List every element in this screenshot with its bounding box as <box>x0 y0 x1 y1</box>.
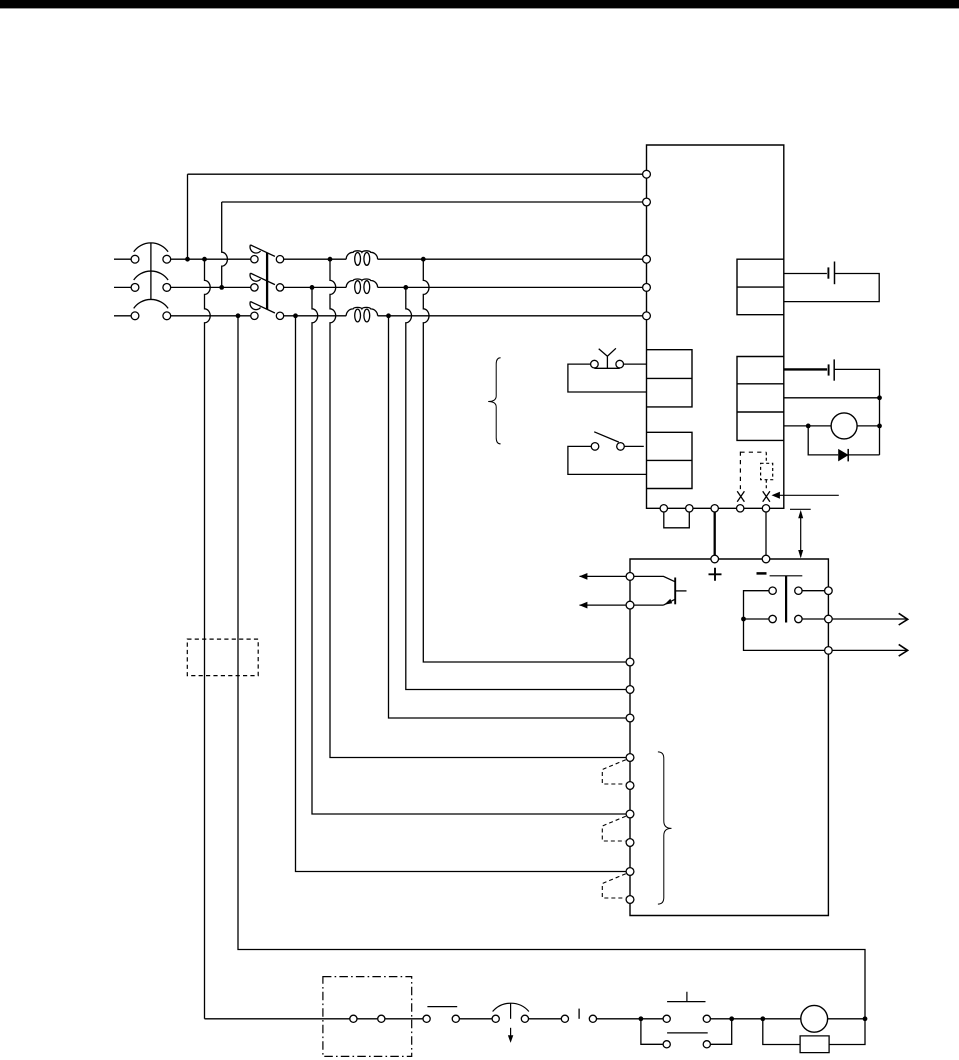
contact K4 terminal a <box>663 1041 670 1048</box>
wire L1 switch-to-breaker <box>167 258 255 260</box>
terminal S0 <box>643 198 651 206</box>
brake wire low <box>784 425 831 427</box>
brake wire mid <box>784 397 880 399</box>
terminal T5 <box>626 782 634 790</box>
reactor L1 humps <box>346 251 377 259</box>
dashed link 871-899 <box>602 874 626 898</box>
battery BT2 top loop <box>834 369 879 455</box>
breaker Q1 pole 3 blade <box>250 302 275 314</box>
resistor R1 branch <box>763 1019 865 1045</box>
contact K1 terminal b <box>378 1015 385 1022</box>
terminal U <box>660 505 667 512</box>
breaker Q1 pole 3 left terminal <box>251 312 258 319</box>
wire L1 breaker-to-reactor <box>280 258 346 260</box>
wire L2 input <box>114 286 135 288</box>
thermal contact terminal b <box>616 360 624 368</box>
aux contact terminal a <box>591 443 599 451</box>
regen output wire upper <box>580 576 676 581</box>
dimension arrow down <box>798 550 803 558</box>
pushbutton stem <box>785 576 787 623</box>
rung wire g <box>828 1018 865 1020</box>
brace left <box>488 358 500 444</box>
terminal M1t <box>626 658 634 666</box>
junction tap L3 pre-breaker <box>236 313 241 318</box>
junction PB right <box>729 1016 734 1021</box>
jumper plug dashed body <box>761 463 773 479</box>
battery BT2 feed wire <box>784 368 827 370</box>
aux contact blade <box>594 432 619 442</box>
reactor L2 humps <box>346 279 377 287</box>
rung wire b <box>460 1018 492 1020</box>
arrowhead out upper <box>899 613 908 625</box>
pushbutton contact a2 <box>795 587 802 594</box>
wire tap L1 pre-breaker down to rung <box>205 259 211 1019</box>
terminal R <box>643 255 651 263</box>
battery BT2 long plate <box>833 359 835 380</box>
breaker Q1 pole 1 blade <box>250 245 275 257</box>
contact K4 terminal b <box>703 1041 710 1048</box>
terminal block TB1 outline <box>737 259 784 315</box>
wire tap L2 post-reactor <box>406 287 630 689</box>
relay block MC1 outline <box>647 350 693 407</box>
relay block MC1 divider <box>647 377 693 379</box>
controller unit outline <box>630 559 828 916</box>
motor M2 (fan/relay coil) <box>801 1005 828 1032</box>
thermal contact chord <box>594 367 619 369</box>
aux contact terminal b <box>617 443 625 451</box>
junction motor right <box>877 424 882 429</box>
minus label <box>757 572 767 575</box>
resistor R1 body <box>800 1036 829 1053</box>
wire L3 switch-to-breaker <box>167 315 255 317</box>
terminal regen lower <box>626 601 634 609</box>
transistor Q2 emitter <box>664 599 676 605</box>
flow switch terminal b <box>521 1015 528 1022</box>
flow switch arrow <box>508 1035 513 1043</box>
plus label <box>709 568 722 581</box>
switch S1 pole 2 right terminal <box>163 284 171 292</box>
dashed link 757-785 <box>602 760 626 784</box>
junction tap L2 post-reactor <box>403 285 408 290</box>
junction tap L1 post-breaker <box>328 257 333 262</box>
breaker Q1 pole 2 right terminal <box>276 284 283 291</box>
battery BT2 short plate <box>828 364 830 375</box>
junction tap L3 post-reactor <box>386 313 391 318</box>
diode D1 cathode bar <box>847 449 849 462</box>
reactor L1 loop b <box>364 253 370 266</box>
breaker Q1 pole 1 right terminal <box>276 256 283 263</box>
page header black bar <box>0 0 959 8</box>
breaker Q1 pole 2 left terminal <box>251 284 258 291</box>
terminal block TB2 divider b <box>737 411 784 413</box>
pushbutton left rail <box>744 591 825 651</box>
bus wire S0 horizontal <box>222 201 647 203</box>
terminal out a <box>825 587 833 595</box>
thermal contact terminal a <box>591 360 599 368</box>
diode D1 branch wire <box>808 426 879 455</box>
wire N- feed <box>765 508 767 559</box>
terminal T8 <box>626 868 634 876</box>
terminal V <box>686 505 693 512</box>
breaker Q1 pole 3 right terminal <box>276 312 283 319</box>
terminal block TB2 outline <box>737 357 784 441</box>
terminal S <box>643 284 651 292</box>
switch S1 pole 3 arc <box>134 299 168 308</box>
switch S1 pole 2 arc <box>134 271 168 280</box>
battery BT1 long plate <box>834 262 836 285</box>
junction motor M2 left <box>760 1016 765 1021</box>
dimension arrow up <box>798 510 803 518</box>
thermal contact wire right <box>624 363 647 365</box>
dimension tick <box>790 508 811 510</box>
jumper plug dashed stem bottom <box>765 480 767 489</box>
terminal out c <box>825 647 833 655</box>
reactor L3 loop a <box>355 309 361 322</box>
jumper callout arrowhead <box>772 492 780 499</box>
pushbutton wire upper right <box>802 590 825 592</box>
wire P+ feed <box>714 508 716 559</box>
rung wire a <box>385 1018 423 1020</box>
terminal block TB2 divider a <box>737 383 784 385</box>
wire tap L2 post-breaker <box>312 287 630 814</box>
contact K2 terminal a <box>423 1015 430 1022</box>
wire L2 switch-to-breaker <box>167 286 255 288</box>
contact K3 terminal b <box>589 1015 596 1022</box>
arrowhead out lower <box>899 644 908 656</box>
terminal P <box>737 505 744 512</box>
transistor Q2 emitter arrow <box>664 599 672 605</box>
parallel NC branch <box>641 1019 732 1045</box>
wire L3 reactor-to-amplifier <box>378 315 647 317</box>
switch S1 pole 3 left terminal <box>131 312 139 320</box>
wire tap L3 pre-breaker bypass <box>238 316 865 1019</box>
breaker Q1 pole 1 flag <box>250 245 261 253</box>
rung wire c <box>529 1018 561 1020</box>
junction tap L1 pre-breaker <box>202 257 207 262</box>
pushbutton contact b2 <box>795 615 802 622</box>
contact K2 NC bar <box>427 1006 457 1008</box>
bus wire R0 drop <box>187 174 189 259</box>
jumper plug dashed lead left <box>739 452 741 490</box>
wire tap L3 post-breaker <box>296 316 631 872</box>
battery BT1 short plate <box>827 267 829 278</box>
junction pushbutton rail <box>741 617 746 622</box>
breaker Q1 pole 2 blade <box>250 273 275 285</box>
flow switch stem <box>510 1003 512 1018</box>
junction R0/L1 <box>185 257 190 262</box>
pushbutton bar <box>770 575 803 577</box>
terminal M2t <box>626 686 634 694</box>
pushbutton contact b1 <box>769 615 776 622</box>
wire L2 reactor-to-amplifier <box>378 286 647 288</box>
contact K3 tick <box>578 1009 580 1019</box>
reactor L1 loop a <box>355 253 361 266</box>
pushbutton left lower wire <box>744 618 769 620</box>
switch S1 pole 3 right terminal <box>163 312 171 320</box>
junction tap L3 post-breaker <box>293 313 298 318</box>
relay block MC2 divider <box>647 459 693 461</box>
wire L2 breaker-to-reactor <box>280 286 346 288</box>
terminal block TB1 divider <box>737 286 784 288</box>
transistor Q2 base lead <box>675 590 686 592</box>
terminal N <box>762 505 769 512</box>
terminal M3t <box>626 714 634 722</box>
jumper plug dashed top <box>740 451 766 453</box>
junction S0/L2 <box>219 285 224 290</box>
pushbutton PB1 actuator <box>667 992 705 1002</box>
terminal T9 <box>626 896 634 904</box>
terminal T7 <box>626 839 634 847</box>
switch S1 pole 2 left terminal <box>131 284 139 292</box>
contact K2 terminal b <box>452 1015 459 1022</box>
wire L3 breaker-to-reactor <box>280 315 346 317</box>
breaker Q1 pole 1 left terminal <box>251 256 258 263</box>
motor M1 (brake motor) <box>831 413 857 439</box>
U-V jumper loop <box>664 508 690 528</box>
regen output wire lower <box>580 604 664 606</box>
terminal N in <box>762 555 770 563</box>
wire L1 reactor-to-amplifier <box>378 258 647 260</box>
signal wire out upper <box>832 618 907 620</box>
bus wire R0 horizontal <box>188 173 647 175</box>
breaker Q1 pole 3 flag <box>250 302 261 310</box>
wire tap L1 post-breaker <box>330 259 630 757</box>
terminal W <box>711 505 718 512</box>
flow switch dome <box>493 1003 529 1011</box>
terminal P in <box>711 555 719 563</box>
signal wire out lower <box>832 649 907 651</box>
switch S1 pole 1 arc <box>134 243 168 252</box>
pushbutton wire lower right <box>802 618 825 620</box>
terminal T6 <box>626 810 634 818</box>
aux contact wire right <box>624 445 643 447</box>
terminal out b <box>825 615 833 623</box>
chain-line box (external unit) <box>323 977 412 1057</box>
junction tap L2 post-breaker <box>310 285 315 290</box>
reactor L3 loop b <box>364 309 370 322</box>
junction PB left <box>639 1016 644 1021</box>
contact K4 NC bar <box>667 1032 708 1034</box>
jumper X mark a <box>737 491 744 502</box>
amplifier unit outline <box>647 145 784 508</box>
reactor L2 loop a <box>355 281 361 294</box>
reactor L3 humps <box>346 307 377 315</box>
breaker Q1 pole 2 flag <box>250 273 261 281</box>
flow switch drop line <box>510 1028 512 1036</box>
thermal contact Y actuator <box>599 348 616 368</box>
battery BT1 loop <box>784 274 879 302</box>
thermal contact return loop <box>568 364 647 392</box>
rung wire d <box>597 1018 663 1020</box>
aux contact return loop <box>568 446 647 474</box>
pushbutton PB1 terminal a <box>663 1015 670 1022</box>
switch S1 linkage <box>150 243 152 300</box>
bus wire S0 drop <box>222 202 228 287</box>
pushbutton contact a1 <box>769 587 776 594</box>
transistor Q2 bar <box>674 578 676 605</box>
motor M1 wire right <box>857 425 879 427</box>
pushbutton PB1 terminal b <box>703 1015 710 1022</box>
wire L1 input <box>114 258 135 260</box>
rung wire e <box>711 1018 766 1020</box>
junction motor left <box>806 424 811 429</box>
contact K3 terminal a <box>561 1015 568 1022</box>
jumper callout line <box>779 494 839 496</box>
terminal T <box>643 312 651 320</box>
battery BT1 wire <box>784 273 827 275</box>
dimension line <box>800 512 802 557</box>
arrow regen upper <box>579 573 587 580</box>
junction rung right <box>863 1016 868 1021</box>
contact K1 bridge <box>357 1018 377 1020</box>
breaker Q1 tie bar <box>266 253 268 309</box>
wire L3 input <box>114 315 135 317</box>
flow switch terminal a <box>492 1015 499 1022</box>
contact K1 terminal a <box>350 1015 357 1022</box>
terminal T4 <box>626 754 634 762</box>
junction tap L1 post-reactor <box>421 257 426 262</box>
terminal R0 <box>643 170 651 178</box>
switch S1 pole 1 right terminal <box>163 255 171 263</box>
arrow regen lower <box>579 602 587 609</box>
switch S1 pole 1 left terminal <box>131 255 139 263</box>
dashed link 814-842 <box>602 816 626 841</box>
rung wire f <box>766 1018 801 1020</box>
jumper plug dashed stem top <box>765 452 767 463</box>
jumper X mark b <box>763 491 770 502</box>
diode D1 triangle <box>838 449 848 462</box>
wire tap L3 post-reactor <box>389 316 631 718</box>
wire tap L1 post-reactor <box>423 259 630 662</box>
brace right <box>658 752 672 904</box>
relay block MC2 outline <box>647 432 693 488</box>
junction brake mid <box>877 395 882 400</box>
terminal regen upper <box>626 573 634 581</box>
reactor L2 loop b <box>364 281 370 294</box>
dashed option box <box>187 639 258 676</box>
control rung left <box>205 1018 350 1020</box>
